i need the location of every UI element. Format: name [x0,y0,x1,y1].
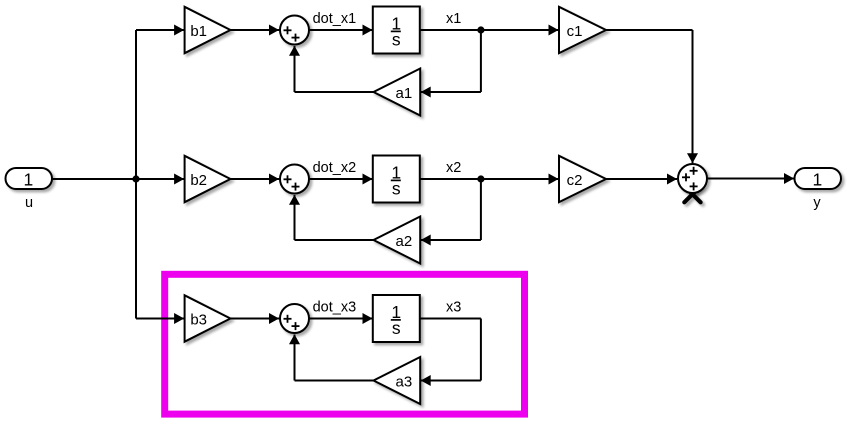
svg-text:a2: a2 [396,233,413,250]
svg-text:a3: a3 [396,373,413,390]
svg-text:a1: a1 [396,85,413,102]
svg-text:s: s [392,179,401,199]
svg-text:x3: x3 [446,300,461,316]
svg-text:b3: b3 [190,311,207,328]
svg-text:u: u [25,195,33,211]
svg-text:s: s [392,30,401,50]
svg-text:dot_x1: dot_x1 [313,11,357,27]
svg-text:y: y [813,195,821,211]
svg-text:x1: x1 [446,11,461,27]
svg-text:1: 1 [813,169,823,189]
svg-text:dot_x3: dot_x3 [313,300,357,316]
svg-text:c2: c2 [567,172,583,189]
svg-text:1: 1 [24,169,34,189]
svg-text:dot_x2: dot_x2 [313,160,357,176]
svg-text:b2: b2 [190,172,207,189]
svg-text:c1: c1 [567,23,583,40]
svg-text:s: s [392,318,401,338]
svg-text:x2: x2 [446,160,461,176]
svg-text:b1: b1 [190,23,207,40]
